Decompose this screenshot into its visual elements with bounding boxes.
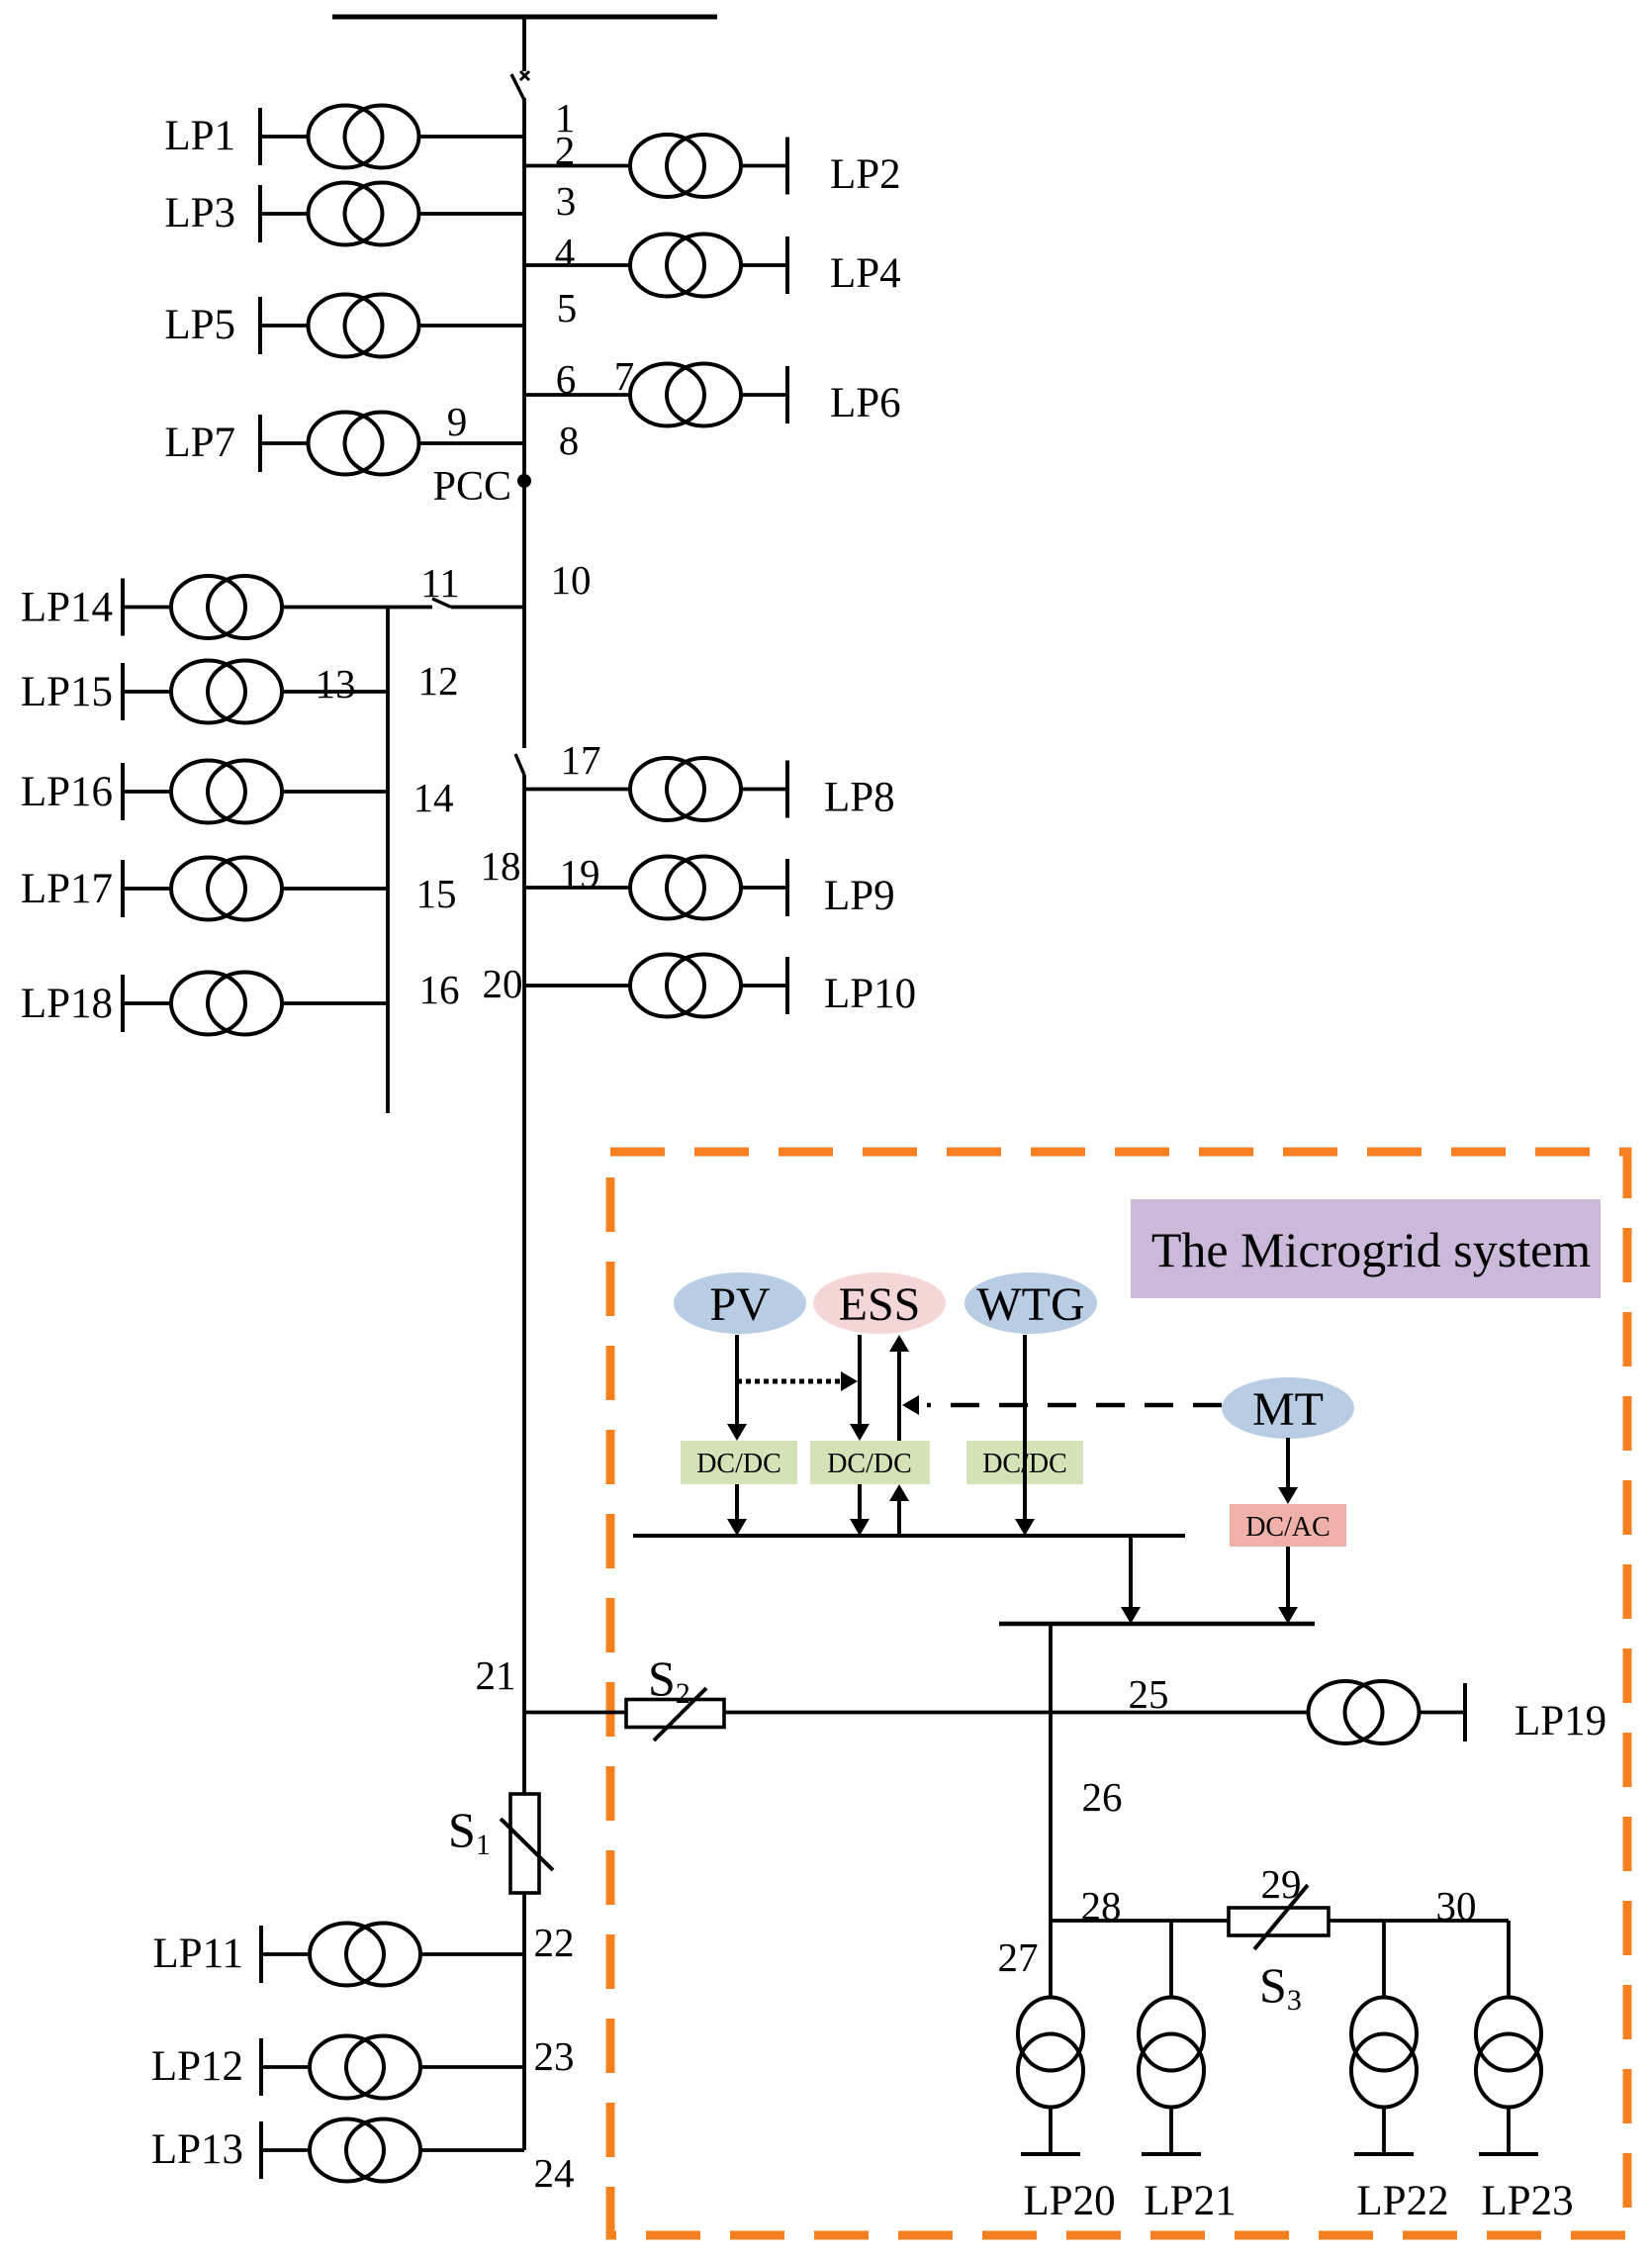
svg-text:24: 24 bbox=[534, 2150, 575, 2196]
load terminal LP10 bbox=[785, 957, 789, 1014]
svg-text:LP2: LP2 bbox=[830, 151, 901, 198]
svg-text:LP21: LP21 bbox=[1144, 2178, 1236, 2224]
wire LP5 transformer to feeder bbox=[419, 324, 524, 328]
load terminal LP9 bbox=[785, 859, 789, 916]
wire PV to DC/DC with arrow bbox=[735, 1335, 739, 1426]
mid-feeder switch (open blade between nodes 12 and 14) bbox=[515, 754, 524, 775]
svg-text:LP8: LP8 bbox=[824, 775, 895, 821]
wire DC bus to AC bus with arrow bbox=[1129, 1536, 1133, 1609]
transformer LP9 bbox=[630, 857, 741, 919]
load terminal LP11 bbox=[259, 1926, 263, 1983]
wire transformer LP23 to ground bbox=[1507, 2107, 1511, 2154]
microgrid title box bbox=[1131, 1199, 1601, 1298]
svg-text:DC/DC: DC/DC bbox=[696, 1449, 781, 1479]
transformer LP20 bbox=[1018, 1998, 1083, 2108]
transformer LP1 bbox=[309, 106, 419, 168]
ground (LP22) bbox=[1354, 2152, 1414, 2156]
switch S3 blade slash bbox=[1254, 1885, 1308, 1949]
svg-text:5: 5 bbox=[557, 285, 578, 330]
transformer LP5 bbox=[309, 295, 419, 357]
svg-text:13: 13 bbox=[316, 661, 356, 706]
svg-text:The Microgrid system: The Microgrid system bbox=[1151, 1222, 1591, 1277]
svg-text:20: 20 bbox=[483, 961, 523, 1006]
transformer LP17 bbox=[171, 858, 282, 920]
transformer LP11 bbox=[310, 1924, 420, 1986]
svg-text:18: 18 bbox=[481, 843, 521, 889]
ground (LP20) bbox=[1021, 2152, 1080, 2156]
converter DC/DC (WTG) bbox=[966, 1441, 1083, 1484]
main feeder breaker (open switch blade) bbox=[511, 71, 529, 100]
wire LP1 terminal to transformer bbox=[260, 135, 308, 139]
source WTG bbox=[964, 1272, 1097, 1334]
dashed arrow MT to ESS bbox=[927, 1403, 1222, 1408]
svg-text:LP6: LP6 bbox=[830, 380, 901, 426]
load terminal LP12 bbox=[259, 2038, 263, 2096]
svg-text:WTG: WTG bbox=[976, 1278, 1084, 1331]
svg-text:26: 26 bbox=[1082, 1774, 1123, 1820]
wire main feeder upper section (nodes 1-8) bbox=[522, 98, 526, 748]
wire LP3 transformer to feeder bbox=[419, 212, 524, 216]
load terminal LP5 bbox=[258, 297, 262, 354]
load terminal LP3 bbox=[258, 185, 262, 242]
svg-text:7: 7 bbox=[614, 353, 635, 399]
source ESS bbox=[813, 1272, 946, 1334]
wire LP15 transformer to lateral bus bbox=[283, 690, 388, 694]
svg-text:DC/AC: DC/AC bbox=[1245, 1512, 1331, 1543]
wire transformer LP6 to terminal bbox=[740, 393, 787, 397]
svg-text:LP17: LP17 bbox=[21, 866, 113, 912]
wire main feeder lower section (nodes 14-21) bbox=[522, 775, 526, 1794]
transformer LP4 bbox=[630, 235, 741, 297]
load terminal LP6 bbox=[785, 366, 789, 424]
wire LP16 terminal to transformer bbox=[123, 790, 170, 794]
transformer LP14 bbox=[171, 576, 282, 638]
load terminal LP17 bbox=[121, 860, 125, 917]
load terminal LP2 bbox=[785, 138, 789, 195]
wire MT to DC/AC with arrow bbox=[1286, 1438, 1290, 1488]
wire AC bus down to node 26/28 bbox=[1049, 1624, 1053, 1921]
wire LP11 terminal to transformer bbox=[261, 1952, 310, 1956]
wire DC bus up to ESS DC/DC with arrow bbox=[897, 1498, 901, 1536]
wire node 28 left segment bbox=[1051, 1919, 1229, 1923]
wire LP12 terminal to transformer bbox=[261, 2065, 310, 2069]
ground (LP23) bbox=[1479, 2152, 1538, 2156]
wire LP13 terminal to transformer bbox=[261, 2148, 310, 2152]
wire feeder to transformer LP8 bbox=[524, 788, 631, 792]
load terminal LP18 bbox=[121, 975, 125, 1032]
wire S2 to node 25 and LP19 bbox=[723, 1711, 1309, 1715]
svg-text:LP5: LP5 bbox=[164, 302, 235, 348]
svg-text:LP7: LP7 bbox=[164, 420, 235, 466]
wire transformer LP10 to terminal bbox=[740, 984, 787, 988]
load terminal LP15 bbox=[121, 663, 125, 720]
source PV bbox=[674, 1272, 806, 1334]
wire node to transformer LP21 bbox=[1169, 1921, 1173, 1998]
wire transformer LP21 to ground bbox=[1169, 2107, 1173, 2154]
load terminal LP8 bbox=[785, 761, 789, 818]
wire transformer LP19 to terminal bbox=[1419, 1711, 1465, 1715]
transformer LP21 bbox=[1139, 1998, 1204, 2108]
wire LP11 transformer to feeder bbox=[420, 1952, 524, 1956]
source MT bbox=[1222, 1377, 1354, 1439]
svg-text:4: 4 bbox=[555, 230, 576, 275]
wire feeder to transformer LP2 bbox=[524, 164, 631, 168]
wire WTG through DC/DC bbox=[1023, 1335, 1027, 1441]
svg-text:LP20: LP20 bbox=[1023, 2178, 1115, 2224]
wire LP5 terminal to transformer bbox=[260, 324, 308, 328]
wire transformer LP9 to terminal bbox=[740, 886, 787, 890]
svg-text:ESS: ESS bbox=[839, 1278, 921, 1331]
wire transformer LP20 to ground bbox=[1049, 2107, 1053, 2154]
svg-text:LP12: LP12 bbox=[151, 2043, 243, 2090]
wire ESS DC/DC to DC bus with arrow bbox=[858, 1484, 862, 1521]
transformer LP6 bbox=[630, 364, 741, 426]
transformer LP15 bbox=[171, 661, 282, 723]
wire LP15 terminal to transformer bbox=[123, 690, 170, 694]
svg-text:LP14: LP14 bbox=[21, 585, 113, 631]
svg-text:LP9: LP9 bbox=[824, 873, 895, 919]
wire LP17 terminal to transformer bbox=[123, 887, 170, 891]
AC bus bbox=[999, 1622, 1315, 1627]
wire transformer LP4 to terminal bbox=[740, 263, 787, 267]
transformer LP8 bbox=[630, 758, 741, 820]
wire LP3 terminal to transformer bbox=[260, 212, 308, 216]
svg-text:3: 3 bbox=[556, 178, 577, 224]
load terminal LP16 bbox=[121, 763, 125, 820]
load terminal LP4 bbox=[785, 236, 789, 294]
load terminal LP13 bbox=[259, 2121, 263, 2179]
switch S1 blade slash bbox=[501, 1819, 553, 1870]
wire LP18 terminal to transformer bbox=[123, 1001, 170, 1005]
wire PV DC/DC to DC bus with arrow bbox=[735, 1484, 739, 1521]
wire node 28 right segment to node 30 bbox=[1329, 1919, 1509, 1923]
svg-text:21: 21 bbox=[476, 1652, 516, 1698]
wire LP12 transformer to feeder bbox=[420, 2065, 524, 2069]
wire feeder to transformer LP4 bbox=[524, 263, 631, 267]
load terminal LP1 bbox=[258, 108, 262, 165]
transformer LP10 bbox=[630, 955, 741, 1017]
wire LP17 transformer to lateral bus bbox=[283, 887, 388, 891]
converter DC/DC (PV) bbox=[681, 1441, 797, 1484]
wire LP7 terminal to transformer bbox=[260, 441, 308, 445]
switch S1 body bbox=[510, 1794, 539, 1893]
sectionalizing switch 11 (open blade) bbox=[432, 599, 451, 608]
wire LP16 transformer to lateral bus bbox=[283, 790, 388, 794]
svg-text:25: 25 bbox=[1129, 1671, 1169, 1717]
transformer LP3 bbox=[309, 183, 419, 245]
DC bus bbox=[633, 1534, 1185, 1538]
svg-text:10: 10 bbox=[551, 557, 592, 603]
wire ESS down to DC/DC with arrow bbox=[858, 1335, 862, 1426]
svg-text:PCC: PCC bbox=[433, 464, 511, 510]
svg-text:LP23: LP23 bbox=[1481, 2178, 1573, 2224]
svg-text:28: 28 bbox=[1081, 1883, 1122, 1929]
svg-text:LP13: LP13 bbox=[151, 2126, 243, 2173]
load terminal LP14 bbox=[121, 579, 125, 636]
svg-text:17: 17 bbox=[561, 737, 601, 783]
microgrid boundary (orange dashed box) bbox=[610, 1152, 1627, 2235]
svg-text:12: 12 bbox=[418, 658, 459, 704]
wire LP7 transformer to feeder bbox=[419, 441, 524, 445]
svg-text:30: 30 bbox=[1436, 1883, 1477, 1929]
wire LP18 transformer to lateral bus bbox=[283, 1001, 388, 1005]
transformer LP19 bbox=[1309, 1681, 1420, 1743]
svg-text:22: 22 bbox=[534, 1920, 575, 1965]
wire transformer LP8 to terminal bbox=[740, 788, 787, 792]
transformer LP12 bbox=[310, 2036, 420, 2099]
transformer LP7 bbox=[309, 413, 419, 475]
wire DC/DC up to ESS with arrow bbox=[897, 1350, 901, 1441]
svg-text:23: 23 bbox=[534, 2033, 575, 2079]
load terminal LP7 bbox=[258, 415, 262, 472]
wire LP14 transformer to lateral bus bbox=[283, 606, 388, 610]
svg-text:27: 27 bbox=[998, 1934, 1039, 1980]
switch S2 blade slash bbox=[654, 1688, 706, 1741]
transformer LP13 bbox=[310, 2119, 420, 2182]
ground (LP21) bbox=[1142, 2152, 1201, 2156]
lateral bus (nodes 13-16) bbox=[386, 608, 390, 1114]
switch S2 body bbox=[626, 1700, 724, 1728]
transformer LP22 bbox=[1351, 1998, 1417, 2108]
load terminal LP19 bbox=[1463, 1683, 1467, 1742]
wire DC/AC to AC bus with arrow bbox=[1286, 1547, 1290, 1609]
wire node 21 to S2 bbox=[524, 1711, 627, 1715]
wire node to transformer LP20 bbox=[1049, 1921, 1053, 1998]
node PCC junction dot bbox=[517, 474, 531, 488]
svg-text:14: 14 bbox=[413, 775, 454, 820]
svg-text:LP18: LP18 bbox=[21, 981, 113, 1027]
svg-text:LP4: LP4 bbox=[830, 250, 901, 297]
wire from grid bus down to switch bbox=[522, 17, 526, 71]
svg-text:LP22: LP22 bbox=[1356, 2178, 1448, 2224]
svg-text:6: 6 bbox=[556, 356, 577, 402]
svg-text:8: 8 bbox=[559, 418, 580, 463]
converter DC/DC (ESS) bbox=[810, 1441, 930, 1484]
converter DC/AC (MT) bbox=[1230, 1504, 1346, 1547]
svg-text:16: 16 bbox=[419, 967, 460, 1012]
svg-text:LP11: LP11 bbox=[152, 1930, 243, 1977]
wire branch 11 switch to feeder bbox=[451, 606, 524, 610]
svg-text:15: 15 bbox=[416, 871, 457, 916]
transformer LP23 bbox=[1476, 1998, 1541, 2108]
wire branch 11 left of switch bbox=[388, 606, 432, 610]
wire LP1 transformer to feeder bbox=[419, 135, 524, 139]
switch S3 body bbox=[1229, 1908, 1329, 1935]
wire LP14 terminal to transformer bbox=[123, 606, 170, 610]
svg-text:11: 11 bbox=[420, 560, 459, 606]
wire node to transformer LP23 bbox=[1507, 1921, 1511, 1998]
dotted arrow PV to ESS bbox=[737, 1379, 840, 1384]
wire feeder to transformer LP9 bbox=[524, 886, 631, 890]
wire node to transformer LP22 bbox=[1382, 1921, 1386, 1998]
svg-text:2: 2 bbox=[555, 128, 576, 173]
transformer LP16 bbox=[171, 761, 282, 823]
svg-text:LP16: LP16 bbox=[21, 769, 113, 815]
wire feeder to transformer LP6 bbox=[524, 393, 631, 397]
svg-text:LP19: LP19 bbox=[1514, 1698, 1606, 1744]
wire LP13 transformer to feeder bbox=[420, 2148, 524, 2152]
wire feeder to transformer LP10 bbox=[524, 984, 631, 988]
transformer LP18 bbox=[171, 973, 282, 1035]
svg-text:DC/DC: DC/DC bbox=[827, 1449, 912, 1479]
transformer LP2 bbox=[630, 135, 741, 197]
svg-text:LP3: LP3 bbox=[164, 190, 235, 236]
svg-text:LP1: LP1 bbox=[164, 113, 235, 159]
svg-text:LP15: LP15 bbox=[21, 669, 113, 715]
svg-text:LP10: LP10 bbox=[824, 971, 916, 1017]
svg-text:29: 29 bbox=[1261, 1861, 1302, 1907]
wire main feeder below S1 (nodes 22-24) bbox=[522, 1893, 526, 2150]
svg-text:9: 9 bbox=[447, 399, 468, 444]
svg-text:MT: MT bbox=[1252, 1383, 1324, 1436]
utility grid bus (top) bbox=[332, 15, 717, 20]
wire transformer LP2 to terminal bbox=[740, 164, 787, 168]
svg-text:PV: PV bbox=[709, 1278, 771, 1331]
svg-text:19: 19 bbox=[560, 851, 600, 896]
wire transformer LP22 to ground bbox=[1382, 2107, 1386, 2154]
wire WTG DC/DC to DC bus with arrow bbox=[1023, 1441, 1027, 1529]
